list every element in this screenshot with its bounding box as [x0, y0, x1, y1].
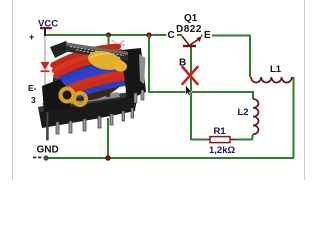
- svg-text:L1: L1: [270, 64, 282, 75]
- wire transformer to ground node: [107, 118, 109, 158]
- wire bottom rail: [46, 157, 294, 159]
- frame edge left: [12, 0, 14, 180]
- wire base down: [190, 46, 192, 140]
- svg-text:D822: D822: [176, 24, 202, 35]
- svg-text:1,2kΩ: 1,2kΩ: [209, 145, 235, 156]
- svg-text:E-: E-: [28, 83, 37, 93]
- svg-text:3: 3: [31, 95, 36, 105]
- photo core left wedge: [50, 41, 71, 58]
- wire emitter to L1: [201, 36, 250, 78]
- svg-text:E: E: [204, 30, 211, 41]
- inductor L1: [251, 64, 292, 83]
- photo yellow lead loops: [61, 89, 87, 106]
- svg-text:C: C: [168, 30, 175, 41]
- node junction dot C on bottom rail: [105, 155, 111, 161]
- photo base block: [38, 91, 138, 128]
- diode D1: [41, 62, 50, 86]
- wire feedback from node B down: [149, 35, 253, 99]
- svg-text:GND: GND: [37, 145, 59, 156]
- svg-text:+: +: [29, 32, 34, 42]
- photo pins bottom: [47, 108, 134, 140]
- svg-text:L2: L2: [238, 107, 249, 118]
- node junction dot A on top rail: [106, 32, 111, 37]
- pin label E: [203, 29, 213, 41]
- resistor R1: [204, 126, 237, 156]
- terminal dot GND: [43, 155, 48, 160]
- wire top rail VCC to C: [44, 34, 182, 36]
- photo bobbin right flange: [121, 48, 146, 100]
- transformer photo T1: [38, 40, 146, 140]
- minus terminal label: [33, 157, 41, 159]
- winding turns: [52, 43, 129, 102]
- wire R1 to base line: [191, 139, 207, 141]
- photo base top stripe: [42, 92, 120, 108]
- transistor Q1: [167, 13, 213, 69]
- wire L1 to bottom rail: [293, 77, 295, 158]
- photo yellow top winding: [86, 48, 124, 73]
- inductor L2: [238, 99, 259, 134]
- wire from node A down to transformer: [108, 35, 110, 52]
- VCC power symbol: [38, 19, 58, 37]
- photo bobbin left flange: [42, 79, 72, 112]
- svg-text:Q1: Q1: [184, 13, 198, 24]
- faint winding symbol behind photo: [111, 40, 125, 56]
- photo winding shadow: [47, 40, 136, 110]
- red X annotation: [183, 67, 198, 84]
- frame edge right: [304, 0, 306, 180]
- wire diode stem: [44, 36, 46, 62]
- pin label C: [167, 29, 178, 41]
- wire L2 bottom to R1: [237, 134, 253, 140]
- svg-text:R1: R1: [214, 126, 227, 137]
- mouse cursor: [186, 85, 192, 96]
- node junction dot B on top rail: [146, 32, 151, 37]
- photo bobbin top flange with label: [66, 43, 128, 62]
